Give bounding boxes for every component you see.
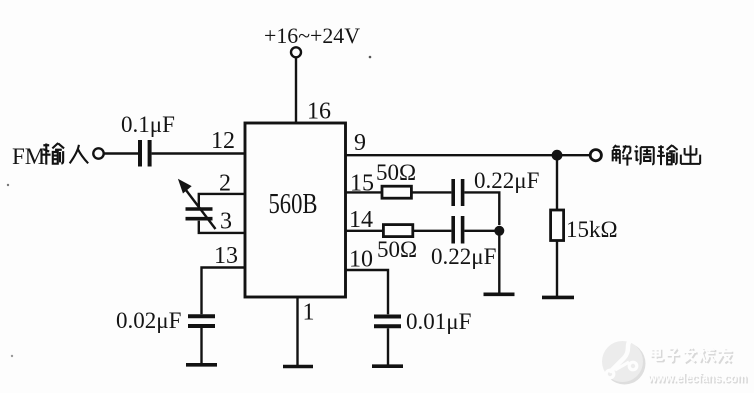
svg-text:2: 2 bbox=[219, 171, 231, 197]
ground (C3) bbox=[372, 364, 403, 368]
wire C2 to ground bbox=[200, 328, 202, 364]
wire R2 to C5 bbox=[413, 230, 452, 232]
svg-text:10: 10 bbox=[349, 247, 373, 273]
variable capacitor CV plates bbox=[186, 209, 213, 219]
capacitor C5 0.22uF (bottom) bbox=[453, 216, 462, 244]
wire C3 to ground bbox=[387, 328, 389, 365]
wire junction to R3 bbox=[556, 155, 558, 210]
svg-text:14: 14 bbox=[349, 207, 373, 233]
scan speck bbox=[7, 184, 9, 186]
resistor R3 15k bbox=[551, 210, 564, 241]
ground (R3) bbox=[542, 296, 574, 300]
svg-text:15kΩ: 15kΩ bbox=[566, 217, 618, 242]
svg-text:0.22μF: 0.22μF bbox=[431, 244, 496, 269]
watermark text 电子发烧友 (embossed) bbox=[651, 347, 733, 363]
ground (pin1) bbox=[283, 365, 313, 369]
wire input to C1 bbox=[104, 152, 138, 154]
svg-text:0.01μF: 0.01μF bbox=[406, 309, 471, 334]
ground (C2) bbox=[186, 363, 217, 367]
svg-text:+16~+24V: +16~+24V bbox=[264, 23, 360, 48]
output terminal bbox=[590, 150, 601, 161]
glyph 输 bbox=[657, 145, 678, 165]
resistor R1 50ohm bbox=[382, 186, 411, 198]
power terminal +16~+24V bbox=[291, 47, 301, 57]
resistor R2 50ohm bbox=[383, 225, 412, 237]
svg-text:www.elecfans.com: www.elecfans.com bbox=[647, 370, 747, 385]
glyph 入 (input) bbox=[70, 145, 88, 163]
label 解调输出 bbox=[613, 145, 700, 166]
wire junction to ground bbox=[498, 231, 500, 294]
svg-text:0.02μF: 0.02μF bbox=[116, 308, 181, 333]
wire pin15 to R1 bbox=[346, 191, 383, 193]
glyph 解 bbox=[613, 145, 632, 166]
svg-text:13: 13 bbox=[214, 243, 238, 269]
svg-text:50Ω: 50Ω bbox=[377, 237, 417, 262]
glyph 出 bbox=[681, 145, 700, 163]
svg-text:3: 3 bbox=[220, 209, 232, 235]
svg-text:12: 12 bbox=[211, 128, 235, 154]
scan speck bbox=[11, 355, 13, 357]
wire pin13 to C2 bbox=[202, 268, 246, 315]
svg-text:50Ω: 50Ω bbox=[376, 160, 416, 185]
wire pin2 to varcap bbox=[199, 194, 245, 207]
svg-text:FM: FM bbox=[12, 144, 45, 169]
wire pin14 to R2 bbox=[346, 230, 384, 232]
watermark logo circle bbox=[602, 337, 646, 385]
wire pin1 to ground bbox=[296, 297, 298, 366]
svg-text:9: 9 bbox=[354, 130, 366, 156]
ground (C4/C5) bbox=[484, 292, 515, 296]
IC U1 560B body bbox=[245, 123, 346, 297]
wire varcap to pin3 bbox=[199, 221, 245, 233]
capacitor C3 0.01uF bbox=[374, 317, 401, 327]
svg-text:16: 16 bbox=[307, 99, 331, 125]
input terminal FM bbox=[93, 148, 103, 158]
wire C5 to junction bbox=[464, 230, 499, 232]
svg-text:1: 1 bbox=[303, 300, 315, 326]
wire C4 to right bus bbox=[464, 192, 499, 225]
svg-text:0.1μF: 0.1μF bbox=[121, 112, 175, 137]
svg-text:560B: 560B bbox=[269, 189, 318, 220]
wire power to pin16 bbox=[295, 58, 297, 123]
wire pin10 to C3 bbox=[346, 270, 389, 314]
wire R3 to ground bbox=[556, 241, 558, 297]
scan speck bbox=[369, 56, 372, 59]
glyph 调 bbox=[634, 146, 653, 164]
wire R1 to C4 bbox=[411, 191, 451, 193]
capacitor C1 0.1uF bbox=[140, 140, 150, 167]
svg-text:0.22μF: 0.22μF bbox=[474, 168, 539, 193]
glyph 输 (input) bbox=[42, 143, 64, 165]
capacitor C4 0.22uF (top) bbox=[453, 179, 462, 206]
node junction (C4/C5) bbox=[494, 226, 504, 236]
node junction on pin9 line bbox=[552, 150, 563, 161]
wire C1 to pin12 bbox=[152, 152, 245, 154]
wire pin9 to output bbox=[346, 154, 590, 156]
varcap arrow bbox=[179, 180, 216, 229]
capacitor C2 0.02uF bbox=[188, 316, 215, 326]
